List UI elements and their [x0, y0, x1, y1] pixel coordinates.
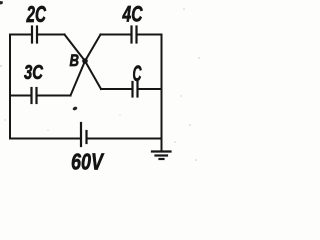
svg-text:2C: 2C — [26, 1, 46, 27]
wire: C to right rail — [138, 88, 162, 90]
faint scan speckles — [0, 8, 200, 161]
capacitor 3C — [32, 88, 37, 103]
wire: segment to capacitor C — [101, 88, 132, 90]
node B junction dot — [82, 58, 88, 64]
wire: middle-left segment to 3C — [10, 95, 31, 97]
wire: 2C to upper-left diagonal bend — [38, 34, 65, 36]
wire: upper-right diagonal from node B — [85, 35, 101, 62]
capacitor 4C — [132, 27, 137, 43]
stray ink mark top-left corner — [0, 1, 3, 5]
svg-text:4C: 4C — [122, 2, 144, 27]
wire: bottom segment to battery — [10, 138, 80, 140]
svg-text:60V: 60V — [71, 149, 105, 175]
capacitor C — [133, 82, 138, 97]
wire: battery to bottom-right corner — [87, 138, 162, 140]
wire: upper-left diagonal into node B — [65, 35, 86, 62]
svg-text:C: C — [133, 61, 143, 86]
battery 60V long plate — [80, 123, 82, 146]
wire: top-right segment to 4C — [101, 34, 132, 36]
wire: right vertical rail down to ground — [161, 35, 163, 151]
svg-text:3C: 3C — [24, 62, 43, 84]
wire: left vertical rail — [9, 35, 11, 139]
ground symbol — [152, 152, 171, 160]
wire: lower-right diagonal from node B — [85, 61, 101, 89]
capacitor 2C — [32, 27, 37, 43]
battery 60V short plate — [85, 131, 87, 143]
wire: 4C to top-right corner — [137, 34, 162, 36]
wire: 3C to lower-left diagonal bend — [37, 95, 71, 97]
wire: lower-left diagonal into node B — [71, 61, 86, 96]
stray ink dot near centre — [72, 106, 78, 111]
wire: top-left segment to 2C — [10, 34, 32, 36]
svg-text:B: B — [70, 52, 80, 70]
